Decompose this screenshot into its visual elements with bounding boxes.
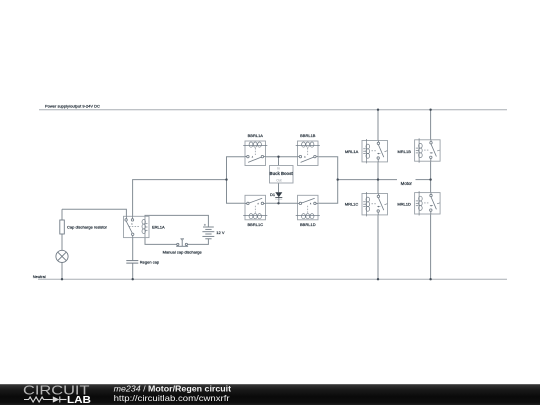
svg-text:Neutral: Neutral: [33, 274, 46, 279]
svg-text:12 V: 12 V: [216, 230, 225, 235]
svg-text:http://circuitlab.com/cwnxrfr: http://circuitlab.com/cwnxrfr: [114, 393, 230, 403]
svg-text:ERL1A: ERL1A: [152, 225, 165, 230]
svg-text:Out: Out: [276, 179, 281, 183]
svg-text:BBRL1B: BBRL1B: [300, 133, 316, 138]
svg-text:Manual cap discharge: Manual cap discharge: [163, 249, 203, 254]
svg-text:MRL1B: MRL1B: [398, 149, 412, 154]
svg-text:1N4148: 1N4148: [275, 199, 283, 201]
svg-text:MRL1A: MRL1A: [345, 149, 359, 154]
svg-text:Cap discharge resistor: Cap discharge resistor: [67, 225, 108, 230]
svg-text:BBRL1C: BBRL1C: [248, 222, 264, 227]
svg-text:MRL1D: MRL1D: [397, 202, 411, 207]
svg-text:BBRL1D: BBRL1D: [300, 222, 316, 227]
svg-text:MRL1C: MRL1C: [345, 202, 359, 207]
svg-text:Buck Boost: Buck Boost: [270, 171, 294, 176]
svg-text:In: In: [277, 166, 280, 170]
svg-text:Motor: Motor: [401, 181, 413, 186]
svg-text:D1: D1: [270, 192, 276, 197]
svg-text:Power supply/output 9-24V DC: Power supply/output 9-24V DC: [45, 104, 100, 109]
svg-text:BBRL1A: BBRL1A: [248, 133, 264, 138]
svg-text:LAB: LAB: [67, 395, 91, 405]
svg-text:Regen cap: Regen cap: [140, 260, 160, 265]
